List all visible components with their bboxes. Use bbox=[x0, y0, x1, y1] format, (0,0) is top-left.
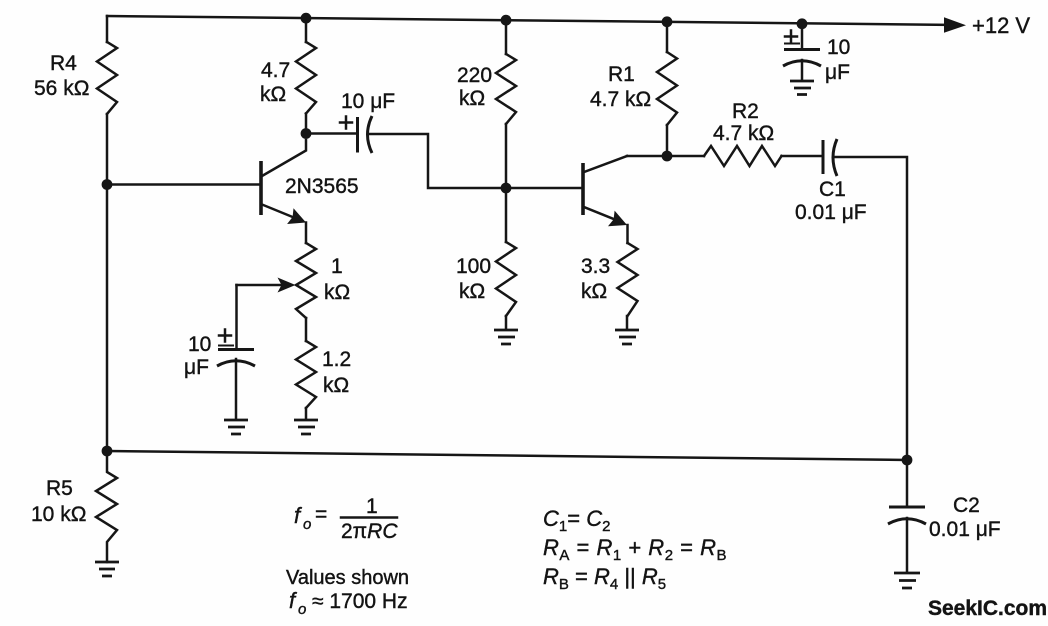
node formula fo approx 1700 Hz bbox=[289, 588, 408, 618]
capacitor C2 bbox=[888, 460, 1001, 572]
node junction collector/cap bbox=[301, 128, 312, 139]
svg-text:100: 100 bbox=[456, 255, 491, 278]
svg-text:C2: C2 bbox=[953, 494, 980, 517]
svg-text:kΩ: kΩ bbox=[581, 280, 607, 303]
node junction bottom rail / C2 bbox=[902, 455, 913, 466]
svg-text:=: = bbox=[315, 503, 327, 526]
node junction R1/collector/R2 bbox=[662, 151, 673, 162]
svg-text:4.7: 4.7 bbox=[261, 59, 290, 82]
node junction top rail / R1 bbox=[662, 16, 673, 27]
wire pot wiper tap bbox=[237, 278, 296, 350]
svg-text:SeekIC.com: SeekIC.com bbox=[928, 597, 1047, 620]
wire cap to RC node bbox=[370, 134, 506, 188]
ground C2 bbox=[894, 573, 920, 588]
svg-text:10 μF: 10 μF bbox=[341, 90, 395, 113]
resistor 1k (emitter pot) bbox=[296, 243, 350, 318]
svg-text:10: 10 bbox=[188, 333, 211, 356]
node junction R4/base bbox=[102, 179, 113, 190]
svg-text:R4: R4 bbox=[50, 52, 77, 75]
svg-text:kΩ: kΩ bbox=[323, 374, 349, 397]
resistor 3.3k bbox=[581, 243, 638, 316]
wire 220k column top bbox=[505, 20, 508, 54]
svg-text:o: o bbox=[298, 601, 306, 618]
svg-text:C1= C2: C1= C2 bbox=[543, 506, 610, 535]
svg-text:kΩ: kΩ bbox=[459, 87, 485, 110]
svg-text:2N3565: 2N3565 bbox=[285, 175, 359, 198]
node junction top rail / 220k bbox=[501, 15, 512, 26]
capacitor 10uF supply bypass bbox=[783, 18, 850, 84]
resistor 4.7k (Q1 collector load) bbox=[260, 42, 316, 114]
wire R1 column top bbox=[666, 22, 669, 52]
node watermark SeekIC.com bbox=[928, 597, 1047, 620]
svg-text:56 kΩ: 56 kΩ bbox=[34, 77, 89, 100]
svg-text:o: o bbox=[303, 516, 311, 533]
svg-text:3.3: 3.3 bbox=[581, 255, 610, 278]
capacitor C1 bbox=[782, 139, 867, 224]
wire base node down to bottom rail bbox=[106, 185, 109, 452]
wire bottom rail bbox=[107, 451, 907, 460]
wire 1k to 1.2k bbox=[305, 318, 308, 341]
svg-text:1: 1 bbox=[366, 495, 378, 518]
svg-text:R5: R5 bbox=[46, 477, 73, 500]
wire Q1 base bbox=[107, 183, 261, 186]
resistor R1 4.7k bbox=[590, 52, 677, 125]
ground supply bypass cap bbox=[790, 81, 814, 95]
wire Q2 collector to R1 node bbox=[627, 155, 667, 158]
resistor 1.2k bbox=[296, 341, 351, 408]
svg-text:1.2: 1.2 bbox=[322, 348, 351, 371]
ground emitter bypass cap bbox=[224, 420, 248, 434]
svg-text:4.7 kΩ: 4.7 kΩ bbox=[590, 88, 651, 111]
wire 1.2k to ground bbox=[305, 408, 308, 419]
wire top rail arrowhead bbox=[944, 17, 966, 32]
wire Q2 base bbox=[506, 187, 583, 190]
svg-text:C1: C1 bbox=[819, 178, 846, 201]
node junction RC node bbox=[501, 183, 512, 194]
svg-text:RA = R1 + R2 = RB: RA = R1 + R2 = RB bbox=[543, 535, 727, 564]
wire R4 to base node bbox=[106, 114, 109, 185]
ground R5 bbox=[95, 562, 119, 576]
node junction bottom-left bbox=[102, 446, 113, 457]
wire 3.3k to ground bbox=[626, 316, 629, 329]
svg-text:4.7 kΩ: 4.7 kΩ bbox=[713, 122, 774, 145]
svg-text:μF: μF bbox=[825, 61, 850, 84]
node junction top rail / 4.7k bbox=[301, 13, 312, 24]
wire 4.7k to collector node bbox=[305, 114, 308, 134]
wire R1 to collector node bbox=[666, 125, 669, 156]
wire 220k to node bbox=[505, 124, 508, 188]
svg-text:μF: μF bbox=[184, 356, 209, 379]
svg-text:R1: R1 bbox=[608, 63, 635, 86]
wire node to 100k bbox=[505, 188, 508, 242]
node formula fo = 1/2piRC bbox=[294, 495, 398, 543]
node formula RA = R1 + R2 = RB bbox=[543, 535, 727, 564]
svg-text:≈ 1700 Hz: ≈ 1700 Hz bbox=[312, 590, 408, 613]
svg-text:0.01 μF: 0.01 μF bbox=[795, 201, 867, 224]
wire C1 to right column bbox=[835, 157, 907, 460]
svg-text:R2: R2 bbox=[732, 100, 759, 123]
svg-text:10 kΩ: 10 kΩ bbox=[31, 503, 86, 526]
capacitor 10uF coupling (Q1 collector) bbox=[306, 90, 395, 153]
wire 4.7k column top bbox=[305, 18, 308, 42]
svg-text:kΩ: kΩ bbox=[324, 281, 350, 304]
svg-text:10: 10 bbox=[827, 36, 850, 59]
svg-text:2πRC: 2πRC bbox=[341, 520, 398, 543]
capacitor 10uF emitter bypass bbox=[184, 330, 255, 420]
ground 3.3k bbox=[615, 330, 639, 344]
resistor R5 bbox=[31, 451, 117, 562]
svg-text:220: 220 bbox=[457, 64, 492, 87]
resistor 100k bbox=[456, 242, 516, 316]
resistor 220k bbox=[457, 54, 516, 124]
svg-text:0.01 μF: 0.01 μF bbox=[929, 518, 1001, 541]
transistor Q1 2N3565 bbox=[261, 140, 359, 243]
svg-text:kΩ: kΩ bbox=[459, 280, 485, 303]
node formula RB = R4 par R5 bbox=[543, 564, 666, 593]
svg-text:+12 V: +12 V bbox=[972, 13, 1030, 38]
ground 100k bbox=[494, 330, 518, 344]
wire left column top (rail to R4) bbox=[106, 16, 109, 42]
node formula C1 = C2 bbox=[543, 506, 610, 535]
svg-text:Values shown: Values shown bbox=[286, 567, 409, 589]
node +12 V label bbox=[972, 13, 1030, 38]
svg-text:kΩ: kΩ bbox=[260, 83, 286, 106]
wire 100k to ground bbox=[505, 316, 508, 329]
node caption Values shown bbox=[286, 567, 409, 589]
resistor R2 4.7k bbox=[667, 100, 782, 166]
ground 1.2k bbox=[294, 420, 318, 434]
svg-text:1: 1 bbox=[331, 255, 343, 278]
transistor Q2 bbox=[583, 156, 628, 243]
wire +12V top rail bbox=[107, 16, 946, 25]
resistor R4 bbox=[34, 42, 117, 114]
